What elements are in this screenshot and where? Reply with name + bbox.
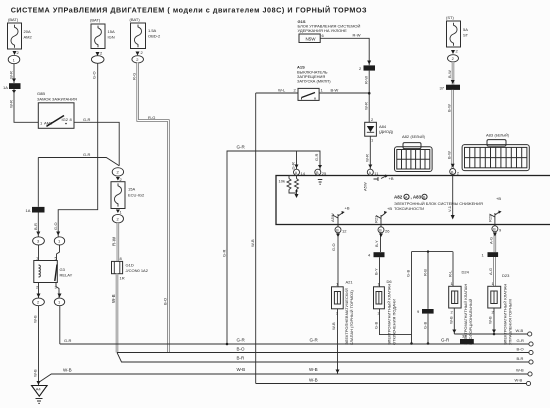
svg-text:37: 37 bbox=[440, 86, 445, 91]
svg-text:26: 26 bbox=[385, 229, 390, 234]
svg-text:B-W: B-W bbox=[447, 104, 452, 112]
svg-text:(ST): (ST) bbox=[446, 15, 454, 20]
svg-text:14: 14 bbox=[301, 171, 306, 176]
svg-text:IGN: IGN bbox=[108, 35, 115, 40]
svg-text:(BAT): (BAT) bbox=[90, 18, 101, 23]
svg-text:B-Y: B-Y bbox=[374, 268, 379, 275]
svg-text:25: 25 bbox=[322, 171, 327, 176]
svg-text:W-B: W-B bbox=[250, 239, 255, 247]
svg-text:ЗАМОК ЗАЖИГАНИЯ: ЗАМОК ЗАЖИГАНИЯ bbox=[37, 97, 77, 102]
svg-text:A83: A83 bbox=[486, 133, 494, 138]
svg-text:G-B: G-B bbox=[406, 270, 411, 277]
svg-text:R29: R29 bbox=[488, 214, 493, 222]
svg-text:B-R: B-R bbox=[33, 223, 38, 230]
svg-text:G-R: G-R bbox=[83, 152, 90, 157]
svg-text:W-B: W-B bbox=[111, 294, 116, 303]
svg-text:G-R: G-R bbox=[64, 338, 71, 343]
svg-text:ОТКЛЮЧЕНИЯ ПОДАЧИ: ОТКЛЮЧЕНИЯ ПОДАЧИ bbox=[392, 299, 397, 345]
svg-text:G-R: G-R bbox=[237, 338, 246, 343]
svg-text:A-G: A-G bbox=[488, 268, 493, 275]
svg-text:N5W: N5W bbox=[306, 37, 317, 42]
svg-text:+B: +B bbox=[345, 206, 350, 211]
svg-text:1R: 1R bbox=[120, 276, 125, 281]
svg-text:G-R: G-R bbox=[83, 117, 90, 122]
svg-text:A82: A82 bbox=[394, 195, 403, 200]
svg-text:G-R: G-R bbox=[441, 338, 450, 343]
svg-text:W-B: W-B bbox=[331, 322, 336, 330]
svg-text:D23: D23 bbox=[502, 273, 510, 278]
svg-text:ТОКСИЧНОСТИ: ТОКСИЧНОСТИ bbox=[394, 206, 424, 211]
svg-text:W-R: W-R bbox=[9, 71, 14, 79]
svg-text:W-B: W-B bbox=[515, 378, 523, 383]
svg-text:15A: 15A bbox=[128, 187, 135, 192]
svg-text:R-W: R-W bbox=[353, 33, 361, 38]
svg-text:W-B: W-B bbox=[309, 367, 318, 372]
svg-text:A5W: A5W bbox=[363, 182, 368, 191]
svg-text:G-R: G-R bbox=[291, 162, 296, 169]
svg-text:ECU-IG2: ECU-IG2 bbox=[128, 193, 145, 198]
svg-text:G8B: G8B bbox=[37, 91, 45, 96]
svg-text:A4: A4 bbox=[36, 387, 42, 392]
svg-text:W-R: W-R bbox=[365, 154, 370, 162]
svg-text:B-W: B-W bbox=[331, 88, 339, 93]
svg-text:G-R: G-R bbox=[517, 338, 524, 343]
svg-text:1A: 1A bbox=[26, 208, 31, 213]
svg-text:G3: G3 bbox=[60, 267, 66, 272]
svg-text:(BAT): (BAT) bbox=[8, 17, 19, 22]
svg-text:G-R: G-R bbox=[310, 338, 319, 343]
svg-text:W-R: W-R bbox=[9, 100, 14, 108]
svg-text:W-B: W-B bbox=[516, 368, 524, 373]
svg-text:КЛАПАН (ГОРНЫЙ ТОРМОЗ): КЛАПАН (ГОРНЫЙ ТОРМОЗ) bbox=[349, 290, 354, 345]
svg-text:B-W: B-W bbox=[447, 70, 452, 78]
svg-text:B-O: B-O bbox=[237, 347, 246, 352]
svg-text:(БЕЛЫЙ): (БЕЛЫЙ) bbox=[495, 134, 509, 138]
svg-text:G-B: G-B bbox=[423, 322, 428, 329]
svg-text:W-B: W-B bbox=[488, 316, 493, 324]
svg-text:G-B: G-B bbox=[374, 322, 379, 329]
svg-text:B-Y: B-Y bbox=[374, 240, 379, 247]
svg-text:(БЕЛЫЙ): (БЕЛЫЙ) bbox=[411, 135, 425, 139]
svg-text:G-R: G-R bbox=[237, 145, 246, 150]
svg-text:G-O: G-O bbox=[331, 243, 336, 251]
svg-text:W-L: W-L bbox=[278, 88, 286, 93]
svg-text:W-R: W-R bbox=[364, 102, 369, 110]
svg-text:(ДИОД): (ДИОД) bbox=[379, 129, 394, 134]
svg-text:5A: 5A bbox=[463, 27, 468, 32]
svg-text:W-B: W-B bbox=[33, 369, 38, 377]
svg-text:B-O: B-O bbox=[163, 298, 168, 305]
svg-text:ПРОПОРЦИОНАЛЬНЫЙ: ПРОПОРЦИОНАЛЬНЫЙ bbox=[468, 299, 473, 345]
svg-text:G-O: G-O bbox=[92, 71, 97, 79]
svg-text:(BAT): (BAT) bbox=[130, 17, 141, 22]
svg-text:RELAY: RELAY bbox=[60, 273, 73, 278]
svg-text:A82: A82 bbox=[402, 134, 410, 139]
svg-text:10k: 10k bbox=[279, 179, 285, 184]
svg-text:15A: 15A bbox=[108, 29, 115, 34]
svg-text:B-W: B-W bbox=[447, 151, 452, 159]
svg-text:B-O: B-O bbox=[517, 347, 524, 352]
svg-text:B-R: B-R bbox=[517, 356, 524, 361]
svg-text:A-G: A-G bbox=[489, 237, 494, 244]
svg-text:12: 12 bbox=[342, 229, 347, 234]
svg-text:R-G: R-G bbox=[132, 73, 137, 80]
svg-text:W-B: W-B bbox=[449, 316, 454, 324]
svg-text:AM2: AM2 bbox=[24, 35, 33, 40]
svg-text:УПРАВЛЕНИЯ ГОРНЫМ: УПРАВЛЕНИЯ ГОРНЫМ bbox=[508, 299, 513, 345]
svg-text:G-R: G-R bbox=[314, 154, 319, 161]
svg-text:A21: A21 bbox=[346, 280, 354, 285]
svg-text:R-W: R-W bbox=[364, 76, 369, 84]
svg-text:ЗАПУСКА (МКПП): ЗАПУСКА (МКПП) bbox=[297, 79, 331, 84]
svg-text:W-B: W-B bbox=[63, 368, 72, 373]
svg-text:OBD-2: OBD-2 bbox=[148, 34, 161, 39]
svg-text:W-B: W-B bbox=[516, 328, 524, 333]
svg-text:1A: 1A bbox=[3, 85, 8, 90]
svg-text:W-B: W-B bbox=[309, 378, 318, 383]
svg-text:D24: D24 bbox=[462, 270, 470, 275]
svg-text:W-B: W-B bbox=[237, 367, 246, 372]
svg-text:IG2: IG2 bbox=[62, 117, 69, 122]
svg-text:V-1: V-1 bbox=[447, 205, 452, 212]
svg-text:СИСТЕМА УПРаВЛЕМИЯ ДВИГАТЕЛЕМ: СИСТЕМА УПРаВЛЕМИЯ ДВИГАТЕЛЕМ ( модели с… bbox=[11, 5, 367, 14]
svg-text:+B: +B bbox=[389, 176, 394, 181]
svg-text:R-W: R-W bbox=[112, 236, 117, 246]
svg-text:32: 32 bbox=[462, 334, 467, 339]
svg-text:R-G: R-G bbox=[148, 115, 155, 120]
svg-text:J/CON0 1A2: J/CON0 1A2 bbox=[126, 268, 149, 273]
svg-text:G-O: G-O bbox=[53, 222, 58, 230]
svg-text:R-B: R-B bbox=[423, 269, 428, 276]
svg-text:ST: ST bbox=[463, 33, 469, 38]
svg-text:, A83: , A83 bbox=[411, 195, 422, 200]
svg-text:G-R: G-R bbox=[222, 250, 227, 257]
svg-text:A5W: A5W bbox=[330, 213, 335, 222]
svg-text:W-B: W-B bbox=[33, 315, 38, 323]
svg-text:20A: 20A bbox=[24, 29, 31, 34]
svg-text:1.5A: 1.5A bbox=[148, 28, 157, 33]
svg-text:G1D: G1D bbox=[126, 263, 134, 268]
svg-text:D6: D6 bbox=[387, 279, 393, 284]
svg-text:+B: +B bbox=[496, 196, 501, 201]
svg-text:B-R: B-R bbox=[237, 356, 246, 361]
svg-text:+B: +B bbox=[387, 206, 392, 211]
svg-text:R-L: R-L bbox=[448, 270, 453, 277]
svg-text:R23: R23 bbox=[374, 215, 379, 223]
